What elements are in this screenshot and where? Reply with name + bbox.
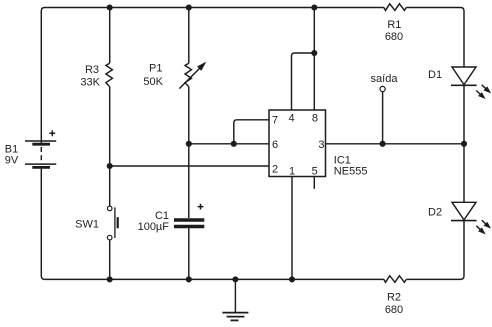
svg-text:3: 3 (318, 139, 324, 151)
resistor R3 (106, 63, 113, 87)
node pin3 row junctions (380, 141, 386, 147)
svg-text:8: 8 (312, 112, 318, 124)
wire pin 6 (189, 143, 269, 145)
svg-text:saída: saída (371, 73, 399, 85)
node top rail junctions (107, 4, 113, 10)
svg-text:D1: D1 (428, 69, 442, 81)
svg-text:9V: 9V (5, 155, 19, 167)
node bottom rail junctions (107, 276, 113, 282)
svg-text:R3: R3 (85, 64, 99, 76)
svg-text:SW1: SW1 (75, 218, 99, 230)
node pin6 row junctions (186, 141, 192, 147)
wire pin 5 stub (313, 177, 315, 189)
svg-text:7: 7 (272, 115, 278, 127)
node pin4/8 split (311, 50, 317, 56)
svg-text:50K: 50K (143, 76, 163, 88)
potentiometer P1 (179, 63, 205, 89)
wire pin 8 from top rail (313, 8, 315, 111)
svg-text:R2: R2 (387, 292, 401, 304)
svg-text:680: 680 (385, 31, 403, 43)
potentiometer P1 branch wire (188, 8, 190, 219)
op-amp U1 : IC1 NE555 box (269, 110, 326, 177)
wire pin 3 (326, 143, 465, 145)
wire top rail (41, 8, 464, 12)
ground (222, 279, 248, 320)
svg-text:6: 6 (272, 139, 278, 151)
svg-text:33K: 33K (80, 76, 100, 88)
svg-text:1: 1 (289, 165, 295, 177)
svg-text:D2: D2 (428, 207, 442, 219)
svg-text:680: 680 (385, 304, 403, 316)
wire left rail lower (41, 169, 45, 280)
wire SW1 to bottom rail (109, 240, 111, 280)
wire right rail (463, 11, 465, 276)
wire pin 4 branch (292, 53, 315, 110)
capacitor C1 (174, 204, 204, 227)
wire pin 7 (234, 120, 269, 144)
wire C1 to bottom rail (188, 228, 190, 279)
resistor R1 (384, 4, 406, 11)
resistor R2 (384, 276, 406, 283)
LED D2 (451, 202, 490, 233)
svg-text:100µF: 100µF (138, 221, 170, 233)
wire pin 1 to bottom rail (291, 177, 293, 280)
wire pin 2 (110, 165, 269, 167)
svg-text:P1: P1 (149, 63, 162, 75)
node pin2 row junction (107, 163, 113, 169)
switch SW1 (107, 206, 117, 240)
svg-text:2: 2 (272, 164, 278, 176)
svg-text:4: 4 (289, 112, 295, 124)
wire saida (382, 92, 384, 144)
svg-text:NE555: NE555 (334, 166, 368, 178)
battery B1 (25, 130, 56, 167)
LED D1 (451, 67, 490, 98)
svg-text:R1: R1 (387, 19, 401, 31)
resistor R3 branch wire (109, 8, 111, 207)
wire left rail upper (40, 11, 42, 143)
node saida terminal (380, 86, 385, 91)
wire bottom rail (45, 276, 464, 280)
svg-text:5: 5 (312, 165, 318, 177)
